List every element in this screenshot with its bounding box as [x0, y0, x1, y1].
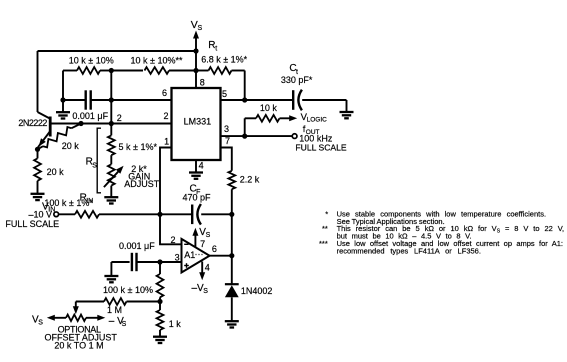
svg-text:S: S — [38, 320, 43, 327]
svg-text:FULL SCALE: FULL SCALE — [295, 143, 347, 153]
opamp -Vs supply arrow — [201, 262, 203, 278]
wire pin 6 to IC — [111, 99, 171, 101]
wire Ct to ground — [302, 99, 346, 101]
node top row / Vs junction — [193, 48, 198, 53]
svg-text:S: S — [206, 232, 211, 239]
svg-text:7: 7 — [200, 239, 205, 249]
svg-text:8: 8 — [200, 78, 205, 88]
svg-text:5 k ± 1%*: 5 k ± 1%* — [119, 142, 158, 152]
wire 10k branch up — [244, 118, 246, 136]
svg-text:0.001 μF: 0.001 μF — [72, 111, 108, 121]
svg-text:7: 7 — [225, 136, 230, 146]
svg-text:0.001 μF: 0.001 μF — [119, 241, 155, 251]
svg-text:4: 4 — [199, 161, 204, 171]
svg-text:FULL SCALE: FULL SCALE — [5, 219, 59, 229]
resistor 10 k ± 10% (left) — [63, 70, 77, 72]
ground (1 k) — [153, 337, 167, 343]
wire left column vertical — [37, 51, 39, 112]
wire pin 4 to ground — [195, 160, 197, 172]
resistor 20 k (vertical) — [37, 149, 39, 158]
resistor RIN 100 k — [59, 213, 75, 215]
ground (0.001 uF node) — [62, 100, 64, 112]
op-amp A1 — [182, 239, 210, 273]
svg-text:S: S — [92, 163, 97, 170]
capacitor Ct 330 pF — [293, 90, 302, 111]
node resistor row junction — [193, 68, 198, 73]
svg-text:20 k TO 1 M: 20 k TO 1 M — [54, 341, 103, 351]
wire middle column lower — [110, 100, 112, 124]
power rail Vs (top) — [195, 33, 197, 51]
wire Vs node to resistor row — [195, 51, 197, 71]
node base row B — [109, 121, 114, 126]
svg-text:1 M: 1 M — [107, 305, 122, 315]
svg-text:2: 2 — [171, 235, 176, 245]
svg-text:–V: –V — [192, 283, 205, 294]
bracket RS — [97, 128, 101, 193]
ground (pin 4) — [189, 173, 203, 179]
svg-text:**: ** — [322, 224, 328, 233]
svg-text:10 k: 10 k — [260, 103, 278, 113]
wire pin 8 — [195, 71, 197, 89]
diode D1 1N4002 — [225, 283, 239, 285]
svg-text:1: 1 — [164, 137, 169, 147]
transistor Q1 2N2222 collector wire — [38, 112, 50, 119]
resistor RS 5 k ± 1%* — [110, 124, 112, 136]
node cap right / pin 6 — [109, 97, 114, 102]
wire pin 7 — [221, 148, 232, 171]
node opamp+ junction — [157, 259, 162, 264]
node emitter junction — [35, 147, 40, 152]
wire base row — [50, 123, 171, 125]
potentiometer offset 20k-1M — [66, 315, 86, 321]
node opamp output — [229, 253, 234, 258]
svg-text:···: ··· — [195, 249, 204, 259]
ground (Ct) — [340, 112, 354, 118]
node cap left / ground — [60, 97, 65, 102]
wire pin 1 — [160, 148, 172, 215]
node pin3 junction — [242, 134, 247, 139]
node pin5/6.8k junction — [242, 97, 247, 102]
wire pin 3 row — [221, 135, 293, 137]
potentiometer wiper arrow — [104, 170, 120, 187]
wire opamp inv input — [160, 214, 182, 244]
wire output to diode — [231, 256, 233, 284]
svg-text:S: S — [122, 321, 127, 328]
ground (diode) — [225, 321, 239, 327]
svg-text:LM331: LM331 — [184, 117, 212, 127]
svg-text:2: 2 — [164, 111, 169, 121]
svg-text:LOGIC: LOGIC — [307, 116, 328, 123]
resistor 1 k — [159, 302, 161, 311]
resistor 10 k (logic out) — [245, 117, 256, 119]
node offset junction — [157, 299, 162, 304]
wire 10k-left down to cap node — [62, 71, 64, 101]
ground (emitter 20k) — [31, 194, 45, 200]
resistor 10 k ± 10%** (right) — [111, 70, 143, 72]
wire pin3 net left — [111, 261, 129, 263]
wire opamp output — [210, 255, 232, 257]
resistor 100 k ± 10% (vertical) — [159, 262, 161, 274]
resistor Rt 6.8 k — [196, 70, 209, 72]
svg-text:5: 5 — [222, 89, 227, 99]
wire opamp noninv input — [160, 261, 182, 263]
svg-text:100 k ± 10%: 100 k ± 10% — [103, 285, 153, 295]
resistor 2.2 k — [228, 171, 235, 189]
svg-text:20 k: 20 k — [62, 141, 80, 151]
svg-text:1N4002: 1N4002 — [241, 286, 273, 296]
potentiometer 2 k gain adjust — [108, 164, 115, 185]
node CF left — [157, 212, 162, 217]
svg-text:6: 6 — [162, 88, 167, 98]
svg-text:2N2222: 2N2222 — [18, 118, 47, 128]
svg-text:330 pF*: 330 pF* — [281, 75, 313, 85]
IC U1 LM331 — [172, 88, 221, 160]
svg-text:10 k ± 10%: 10 k ± 10% — [69, 55, 114, 65]
svg-text:6: 6 — [212, 244, 217, 254]
svg-text:S: S — [203, 288, 208, 295]
capacitor 0.001 uF (opamp+) — [132, 253, 137, 271]
offset pot right arrow to -Vs — [86, 317, 100, 319]
opamp plus sign — [184, 265, 189, 267]
svg-text:2.2 k: 2.2 k — [240, 175, 260, 185]
svg-text:ADJUST: ADJUST — [124, 179, 160, 189]
opamp Vs supply arrow — [194, 231, 196, 248]
capacitor CF 470 pF — [192, 204, 201, 225]
svg-text:S: S — [198, 25, 203, 32]
svg-text:10 k ± 10%**: 10 k ± 10%** — [131, 55, 183, 65]
wiper arrow (offset pot) — [75, 302, 77, 309]
wire CF right to output node — [231, 214, 233, 255]
wire middle column upper — [110, 71, 112, 101]
ground (opamp+ cap) — [104, 276, 118, 282]
svg-text:***: *** — [319, 239, 328, 248]
svg-text:1 k: 1 k — [169, 319, 182, 329]
resistor 20 k (diagonal) — [43, 127, 72, 147]
terminal VIN — [54, 212, 59, 217]
terminal fOUT — [292, 134, 297, 139]
node base row A — [78, 121, 83, 126]
svg-text:4: 4 — [205, 262, 210, 272]
transistor Q1 base bar — [49, 117, 52, 137]
wire cap to ground — [110, 262, 112, 276]
offset pot left arrow to Vs — [52, 317, 66, 319]
capacitor 0.001 uF (pin 6) — [86, 90, 91, 109]
opamp minus sign — [184, 243, 188, 245]
wire pin 5 row — [221, 99, 293, 101]
node CF right — [229, 212, 234, 217]
svg-text:*: * — [325, 210, 328, 219]
svg-text:2: 2 — [117, 113, 122, 123]
svg-text:20 k: 20 k — [47, 167, 65, 177]
resistor 1 M — [76, 301, 104, 303]
transistor Q1 emitter with arrow — [38, 132, 50, 148]
svg-text:6.8 k ± 1%*: 6.8 k ± 1%* — [201, 54, 247, 64]
wire 6.8k to pin 5 row — [244, 71, 246, 101]
svg-text:470 pF: 470 pF — [183, 193, 212, 203]
ground (gain pot) — [104, 197, 118, 203]
svg-text:recommended types LF411A or LF: recommended types LF411A or LF356. — [337, 246, 481, 255]
svg-text:t: t — [215, 45, 217, 52]
node 10k junction — [109, 68, 114, 73]
wire top row — [38, 50, 197, 52]
svg-text:3: 3 — [224, 124, 229, 134]
